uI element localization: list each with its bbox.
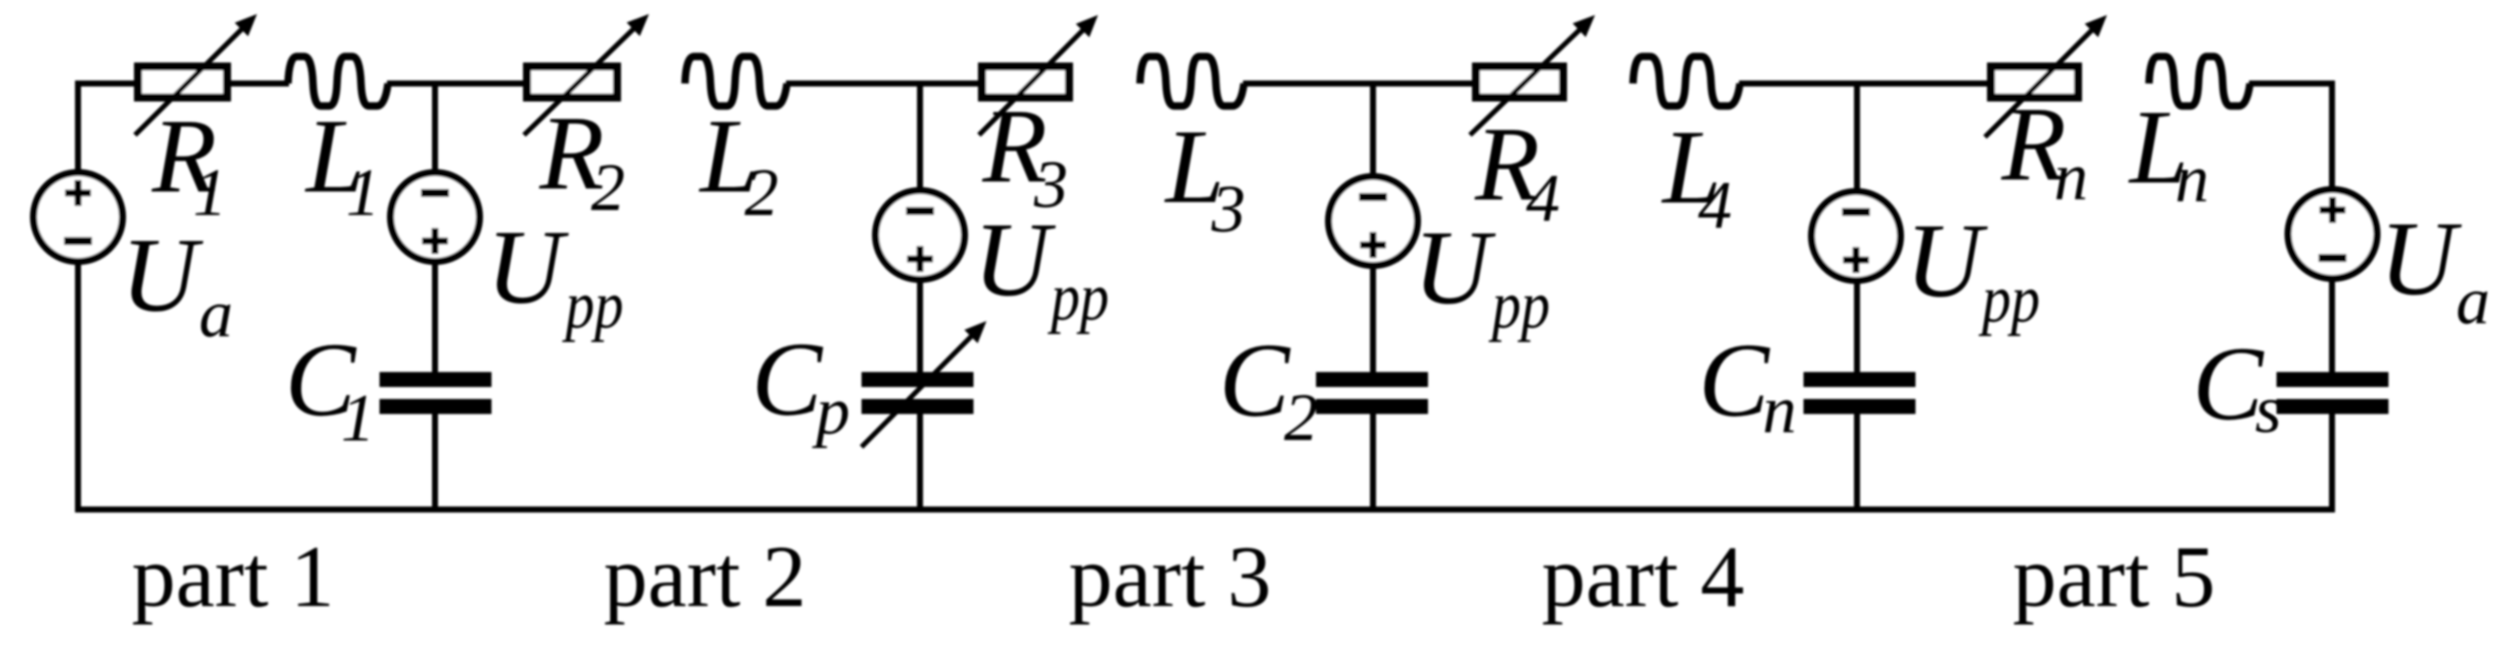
wire top rail segment 7 <box>2249 81 2335 87</box>
svg-text:U: U <box>1906 202 1989 319</box>
svg-text:2: 2 <box>745 154 779 230</box>
svg-text:1: 1 <box>341 380 375 456</box>
capacitor C2 <box>1316 372 1428 414</box>
svg-text:C: C <box>2193 325 2265 442</box>
svg-text:1: 1 <box>193 154 227 230</box>
voltage source Ua left <box>34 173 123 262</box>
wire left edge upper <box>75 84 81 174</box>
inductor L2 <box>685 57 787 107</box>
inductor L3 <box>1140 57 1244 107</box>
svg-text:4: 4 <box>1698 167 1732 243</box>
svg-text:part 1: part 1 <box>132 529 335 626</box>
wire column4 top <box>1854 84 1860 193</box>
svg-text:pp: pp <box>1979 261 2040 337</box>
resistor R1 <box>135 14 257 135</box>
voltage source Ua right <box>2288 190 2377 279</box>
svg-text:U: U <box>1414 209 1497 326</box>
voltage source Upp 4 <box>1812 192 1901 281</box>
wire column4 bottom <box>1854 412 1860 510</box>
svg-text:pp: pp <box>1048 259 1109 335</box>
svg-text:C: C <box>1699 322 1771 439</box>
resistor Rn <box>1985 15 2107 137</box>
svg-text:n: n <box>2054 138 2088 214</box>
capacitor C1 <box>380 372 492 414</box>
wire top rail segment 2 <box>231 81 289 87</box>
svg-text:3: 3 <box>1211 171 1246 247</box>
wire right edge lower <box>2329 412 2335 510</box>
svg-text:part 4: part 4 <box>1542 529 1745 626</box>
svg-text:4: 4 <box>1526 160 1560 236</box>
svg-text:a: a <box>199 276 233 352</box>
svg-text:C: C <box>1219 322 1291 439</box>
wire column3 middle <box>1370 264 1376 374</box>
resistor R2 <box>524 14 649 135</box>
wire column3 top <box>1370 84 1376 179</box>
svg-text:U: U <box>121 217 204 334</box>
wire bottom rail <box>75 507 2335 513</box>
wire column2 middle <box>917 278 923 374</box>
wire column2 bottom <box>917 412 923 510</box>
svg-text:C: C <box>752 321 824 438</box>
svg-text:pp: pp <box>562 267 623 343</box>
wire top rail segment 5 <box>1243 81 1472 87</box>
wire column4 middle <box>1854 279 1860 374</box>
svg-text:2: 2 <box>1284 379 1318 455</box>
svg-text:U: U <box>2380 200 2463 317</box>
capacitor Cp <box>862 321 987 447</box>
wire column1 middle <box>432 260 438 374</box>
svg-text:part 5: part 5 <box>2013 529 2216 626</box>
svg-text:3: 3 <box>1033 146 1068 222</box>
resistor R4 <box>1470 15 1595 135</box>
resistor R3 <box>979 15 1098 135</box>
svg-text:part 3: part 3 <box>1069 529 1272 626</box>
svg-text:2: 2 <box>591 149 625 225</box>
voltage source Upp 2 <box>876 191 965 280</box>
wire top rail segment 4 <box>786 81 978 87</box>
inductor L1 <box>288 57 388 107</box>
wire column3 bottom <box>1370 412 1376 510</box>
wire top rail segment 3 <box>387 81 523 87</box>
wire column1 top <box>432 84 438 175</box>
inductor Ln <box>2149 57 2250 107</box>
capacitor Cn <box>1804 372 1916 414</box>
svg-text:1: 1 <box>346 154 380 230</box>
svg-text:n: n <box>1763 371 1797 447</box>
svg-text:p: p <box>812 373 850 449</box>
voltage source Upp 3 <box>1329 177 1418 266</box>
svg-text:part 2: part 2 <box>604 529 807 626</box>
inductor L4 <box>1633 57 1740 107</box>
svg-text:s: s <box>2255 371 2281 447</box>
wire right edge upper <box>2329 84 2335 192</box>
svg-text:n: n <box>2175 140 2209 216</box>
wire column2 top <box>917 84 923 193</box>
wire top rail segment 1 <box>75 81 134 87</box>
wire left edge lower <box>75 261 81 510</box>
svg-text:a: a <box>2456 263 2490 339</box>
capacitor Cs <box>2277 372 2389 414</box>
wire top rail segment 6 <box>1739 81 1987 87</box>
svg-text:U: U <box>487 209 570 326</box>
svg-text:pp: pp <box>1489 267 1550 343</box>
wire right edge middle <box>2329 277 2335 374</box>
wire column1 bottom <box>432 412 438 510</box>
voltage source Upp 1 <box>391 173 480 262</box>
